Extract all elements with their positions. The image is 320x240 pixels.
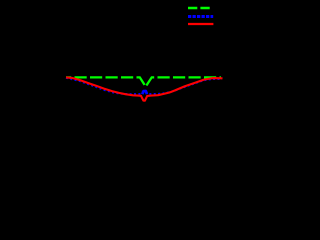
blue dotted curve (66, 78, 222, 94)
legend green dashed sample (188, 7, 210, 10)
red solid curve with center spike (66, 77, 223, 100)
legend blue dotted sample (188, 15, 213, 18)
green dashed curve with V dip (66, 77, 221, 86)
blue center blob (142, 91, 147, 94)
legend red solid sample (188, 23, 213, 25)
